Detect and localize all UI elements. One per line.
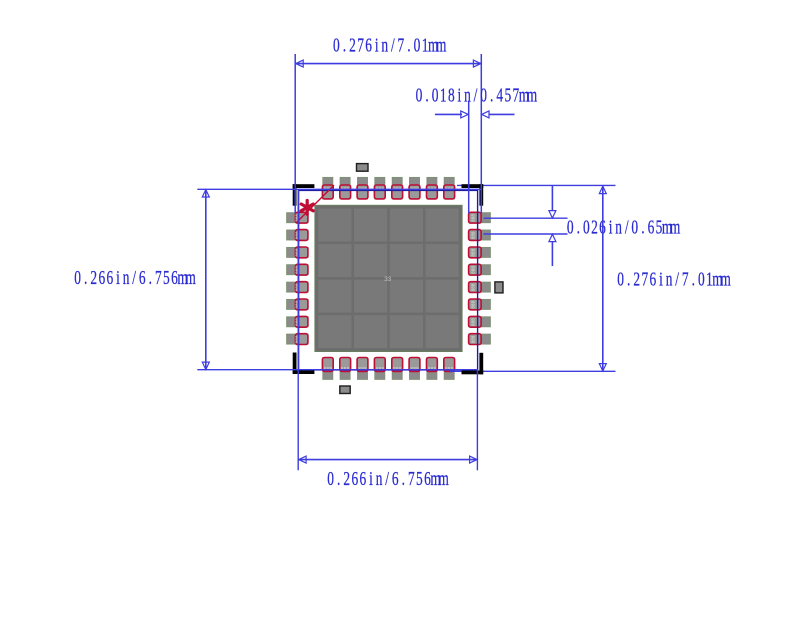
pad 18 (right row pos 7) [469,316,491,327]
dimension pad width: right arrow [489,113,515,115]
pad 16 (bottom row pos 8) [444,358,455,380]
dimension left 0.266in/6.756mm: dimension line with arrowheads [205,190,207,370]
pad 23 (right row pos 2) [469,230,491,241]
pad 15 (bottom row pos 7) [427,358,438,380]
pad 7 (left row pos 7) [287,316,309,327]
pad 3 (left row pos 3) [287,247,309,258]
dimension pad width 0.018in/0.457mm: extension line [468,102,470,214]
corner bracket bottom-left [293,353,315,375]
svg-text:0.266in/6.756mm: 0.266in/6.756mm [327,467,449,489]
pad 31 (top row pos 2) [340,177,351,199]
svg-text:0.026in/0.65mm: 0.026in/0.65mm [567,216,681,238]
svg-text:888: 888 [471,214,476,222]
svg-text:0.266in/6.756mm: 0.266in/6.756mm [74,266,196,288]
pad 27 (top row pos 6) [409,177,420,199]
dimension pitch 0.026in/0.65mm: extension lines from pads [484,217,568,219]
dimension bottom: dimension line with arrowheads [299,459,478,461]
package body outline (navy square) [299,190,478,370]
pad 21 (right row pos 4) [469,264,491,275]
corner bracket bottom-right [462,353,484,375]
pad 29 (top row pos 4) [374,177,385,199]
marker rectangle right [495,282,503,293]
pad 6 (left row pos 6) [287,299,309,310]
corner bracket top-right [462,184,484,206]
pad 8 (left row pos 8) [287,334,309,345]
pad 32 (top row pos 1) [322,177,333,199]
pad 20 (right row pos 5) [469,282,491,293]
pad 24 (right row pos 1) [469,212,491,223]
exposed thermal pad EP (body center pad with 4x4 grid) [315,205,462,351]
pin 1 asterisk [301,201,313,215]
pad 12 (bottom row pos 4) [374,358,385,380]
svg-text:0.276in/7.01mm: 0.276in/7.01mm [617,268,731,290]
svg-text:0.018in/0.457mm: 0.018in/0.457mm [416,84,538,106]
marker rectangle top [357,164,369,172]
pad 26 (top row pos 7) [427,177,438,199]
pad 5 (left row pos 5) [287,282,309,293]
dimension pad width: left arrow [435,113,462,115]
svg-text:888: 888 [471,335,476,343]
pin 1 indicator diagonal line [297,185,334,222]
pad 1 (left row pos 1) [287,212,309,223]
corner bracket top-left [293,184,315,206]
pad 4 (left row pos 4) [287,264,309,275]
pad 22 (right row pos 3) [469,247,491,258]
extension line top right (package top edge) [457,184,616,186]
svg-text:888: 888 [471,231,476,239]
svg-text:888: 888 [471,248,476,256]
dimension top 0.276in/7.01mm: extension lines [294,54,296,213]
pad 17 (right row pos 8) [469,334,491,345]
svg-text:888: 888 [471,266,476,274]
pad 9 (bottom row pos 1) [322,358,333,380]
extension line across top pads [197,188,481,190]
svg-text:888: 888 [471,283,476,291]
pad 2 (left row pos 2) [287,230,309,241]
extension line across bottom pads [197,369,478,371]
dimension pitch: upper arrow [551,186,553,211]
pad 28 (top row pos 5) [392,177,403,199]
dimension top 0.276in/7.01mm: dimension line with arrowheads [296,63,481,65]
svg-text:888: 888 [471,300,476,308]
dimension right 0.276in/7.01mm: dimension line with arrowheads [602,186,604,371]
pad 19 (right row pos 6) [469,299,491,310]
svg-text:33: 33 [384,276,391,283]
dimension pitch: lower arrow [551,242,553,266]
pad 14 (bottom row pos 6) [409,358,420,380]
pad 25 (top row pos 8) [444,177,455,199]
pad 10 (bottom row pos 2) [340,358,351,380]
pad 11 (bottom row pos 3) [357,358,368,380]
dimension bottom 0.266in/6.756mm: extension lines [297,190,299,470]
extension line bottom right (package bottom edge) [450,370,616,372]
pad 30 (top row pos 3) [357,177,368,199]
svg-text:888: 888 [471,318,476,326]
pad 13 (bottom row pos 5) [392,358,403,380]
svg-text:0.276in/7.01mm: 0.276in/7.01mm [333,34,447,56]
marker rectangle bottom [340,386,350,394]
